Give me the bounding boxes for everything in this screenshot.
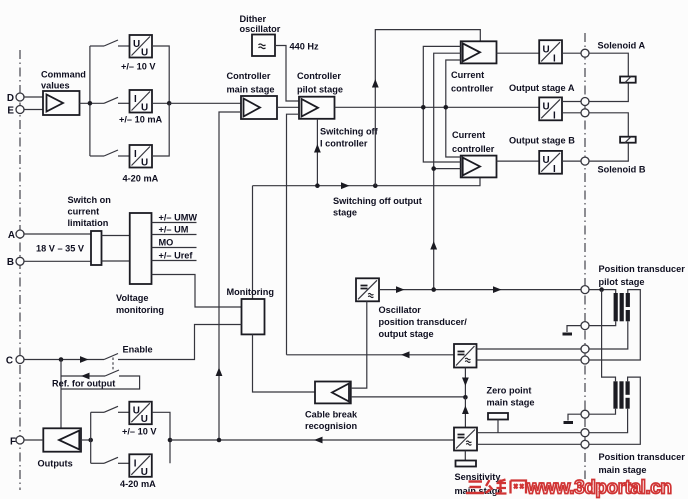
wire Uref to monitoring block: [152, 275, 242, 308]
wire demod pilot output to pilot controller: [287, 354, 455, 356]
block: demodulator pilot stage: [454, 344, 477, 368]
svg-text:MO: MO: [159, 238, 174, 248]
svg-text:4-20 mA: 4-20 mA: [120, 479, 156, 489]
svg-text:F: F: [10, 437, 16, 448]
wire oscillator bottom to cable break: [351, 301, 367, 388]
wire stub to U/U switch: [90, 45, 104, 47]
wire ref switch return loop: [61, 376, 140, 389]
wire switch to output U/U box: [118, 411, 129, 413]
svg-text:Solenoid B: Solenoid B: [598, 165, 646, 175]
converter U/U output +-10V: [129, 402, 152, 426]
svg-text:Oscillator: Oscillator: [379, 305, 422, 315]
potentiometer sensitivity: [456, 451, 477, 467]
junction dot outputs branch: [88, 438, 93, 443]
svg-text:D: D: [7, 93, 14, 104]
wire monitoring to switching line: [252, 186, 254, 299]
junction dot switching at I-controller branch: [315, 183, 320, 188]
svg-text:recognision: recognision: [305, 421, 357, 431]
wire branch into controller B input3: [434, 168, 461, 170]
wire outputs to converter branch: [81, 439, 91, 441]
svg-text:Outputs: Outputs: [38, 459, 73, 469]
svg-text:+/– UM: +/– UM: [159, 225, 189, 235]
wire oscillator output to pilot transducer: [379, 289, 581, 291]
wire ref-for-output branch vertical: [60, 360, 62, 429]
svg-text:main stage: main stage: [599, 465, 647, 475]
signal stub +/- Uref: [152, 260, 197, 262]
wire terminal B to limiter: [24, 260, 91, 262]
terminal circle pilot osc: [581, 286, 589, 294]
arrow up on A-branch: [372, 79, 379, 88]
wire stub to output U/U switch: [91, 411, 104, 413]
svg-text:4-20 mA: 4-20 mA: [123, 174, 159, 184]
svg-text:U: U: [141, 103, 148, 114]
wire switching off I controller: [316, 119, 318, 186]
svg-text:U: U: [543, 102, 550, 113]
arrow right on enable wire: [80, 356, 89, 363]
terminal circle solenoid A plus: [581, 49, 589, 57]
junction dot enable branch: [59, 357, 64, 362]
svg-text:U: U: [133, 39, 140, 50]
svg-text:Current: Current: [452, 130, 485, 140]
block: voltage monitoring: [130, 213, 152, 284]
svg-text:U: U: [141, 467, 148, 478]
wire output stage A lower out: [562, 112, 581, 114]
block: current controller A: [461, 41, 497, 63]
svg-text:Monitoring: Monitoring: [227, 287, 274, 297]
wire demod main input lower: [477, 443, 581, 445]
svg-text:Position transducer: Position transducer: [599, 264, 686, 274]
svg-text:Switch on: Switch on: [68, 195, 112, 205]
svg-text:+/– 10 V: +/– 10 V: [122, 427, 157, 437]
junction dot output join: [168, 438, 173, 443]
arrow right oscillator 2: [493, 286, 502, 293]
terminal circle E: [16, 106, 24, 114]
arrow up main demod: [462, 406, 469, 415]
svg-text:U: U: [543, 155, 550, 166]
svg-text:Controller: Controller: [297, 71, 341, 81]
terminal circle B: [16, 257, 24, 265]
junction dot join: [167, 101, 172, 106]
svg-text:main stage: main stage: [487, 398, 535, 408]
svg-text:U: U: [141, 48, 148, 59]
terminal circle solenoid B minus: [581, 157, 589, 165]
svg-text:position transducer/: position transducer/: [379, 317, 468, 327]
block: output stage B U/I: [539, 151, 562, 175]
svg-text:C: C: [6, 356, 13, 367]
wire main secondary tap: [589, 409, 628, 433]
wire output stage B out: [562, 160, 581, 162]
switch blade ref for output: [105, 370, 119, 376]
wire pilot primary return to gnd terminal: [567, 321, 616, 332]
svg-text:main stage: main stage: [227, 85, 275, 95]
svg-text:U: U: [141, 158, 148, 169]
svg-text:U: U: [141, 414, 148, 425]
wire actual-value feedback line: [170, 439, 454, 441]
svg-text:oscillator: oscillator: [240, 24, 281, 34]
wire feedback into main stage: [219, 112, 241, 440]
left terminal rail (dash-dot): [19, 50, 21, 490]
branch vertical output converters: [90, 412, 92, 463]
block: cable break recognision: [315, 382, 351, 404]
svg-text:output stage: output stage: [379, 329, 434, 339]
watermark 网 glyph: [511, 481, 527, 494]
junction dot oscillator branch B: [431, 166, 436, 171]
wire pilot node to controller A input3 and B input1: [446, 60, 461, 157]
signal stub MO: [152, 247, 197, 249]
svg-text:I: I: [134, 149, 137, 160]
svg-text:Switching off output: Switching off output: [333, 196, 422, 206]
wire ref for output line: [61, 375, 105, 377]
switch blade 4-20mA input: [104, 150, 118, 156]
svg-text:values: values: [41, 81, 70, 91]
switch gang link (dashed): [112, 358, 114, 372]
arrow up on feedback vertical: [216, 368, 223, 377]
arrow right on switching line: [341, 182, 350, 189]
wire pilot secondary tap: [589, 321, 628, 349]
wire enable to monitoring: [118, 325, 242, 360]
switch blade output U/U: [104, 406, 118, 412]
svg-text:Cable break: Cable break: [305, 410, 358, 420]
junction dot pilot line x423: [421, 105, 426, 110]
transformer pilot secondary bottom bar: [626, 310, 630, 321]
block: controller pilot stage: [299, 97, 335, 119]
converter I/U 4-20mA: [130, 145, 153, 169]
terminal circle main sec top: [581, 440, 589, 448]
junction dot branch: [88, 101, 93, 106]
ground pilot: [563, 333, 573, 336]
svg-text:Zero point: Zero point: [487, 386, 532, 396]
wire stub to 4-20mA switch: [90, 155, 104, 157]
wire solenoid A loop: [589, 53, 628, 101]
block: command values amplifier: [43, 91, 80, 115]
terminal circle main gnd: [581, 410, 589, 418]
wire switch to I/U box: [118, 102, 130, 104]
svg-text:pilot stage: pilot stage: [599, 277, 645, 287]
junction dot oscillator sync: [431, 287, 436, 292]
wire pilot secondary top loop: [589, 290, 640, 360]
wire switch to U/U box: [118, 45, 130, 47]
solenoid B coil symbol: [620, 137, 636, 143]
wire switch to 4-20mA box: [118, 155, 130, 157]
svg-text:stage: stage: [333, 208, 357, 218]
junction dot switching at A-branch: [373, 183, 378, 188]
block: current controller B: [461, 156, 497, 178]
svg-text:Voltage: Voltage: [116, 293, 149, 303]
wire solenoid B loop: [589, 113, 628, 161]
wire terminal C to enable switch: [24, 359, 104, 361]
wire output stage A upper out: [562, 101, 581, 103]
switch blade output 4-20: [104, 457, 118, 463]
converter U/U +-10V: [130, 35, 153, 59]
svg-text:U: U: [133, 406, 140, 417]
svg-text:+/– UMW: +/– UMW: [159, 213, 198, 223]
svg-text:I controller: I controller: [320, 139, 368, 149]
wire pilot primary feed: [589, 290, 616, 293]
terminal circle solenoid B plus: [581, 109, 589, 117]
arrow left demod pilot output: [401, 351, 410, 358]
transformer pilot secondary top bar: [626, 293, 630, 307]
wire pilot output to output stage A: [335, 106, 540, 108]
svg-text:I: I: [553, 111, 556, 122]
watermark 维 glyph: [486, 480, 507, 494]
solenoid A coil symbol: [620, 77, 636, 83]
terminal circle A: [16, 230, 24, 238]
wire oscillator down to main transducer: [602, 290, 616, 382]
arrow right oscillator 1: [396, 286, 405, 293]
terminal circle pilot sec top: [581, 356, 589, 364]
svg-text:I: I: [553, 164, 556, 175]
svg-text:A: A: [8, 230, 15, 241]
wire pilot feedback from demodulator: [287, 114, 300, 355]
svg-text:www.3dportal.cn: www.3dportal.cn: [526, 478, 672, 499]
wire demod pilot down to node: [464, 368, 466, 398]
wire command signal to controller main stage: [169, 102, 241, 104]
wire 4-20mA to join vertical: [152, 103, 169, 156]
terminal circle pilot sec tap: [581, 345, 589, 353]
junction dot feedback to main stage: [217, 438, 222, 443]
junction dot transducer signal node: [463, 395, 468, 400]
svg-text:+/– Uref: +/– Uref: [159, 251, 194, 261]
wire oscillator sync to controller A input2 and B input3: [434, 53, 461, 289]
svg-text:I: I: [134, 94, 137, 105]
transformer main secondary bottom bar: [626, 398, 630, 409]
svg-text:U: U: [543, 45, 550, 56]
wire main secondary top loop: [589, 377, 640, 444]
wire terminal A to limiter: [24, 233, 91, 235]
svg-text:current: current: [68, 207, 100, 217]
switch blade enable: [104, 354, 118, 360]
svg-text:pilot stage: pilot stage: [297, 85, 343, 95]
wire command output to branch node: [80, 102, 105, 104]
wire controller A output to U/I stage: [497, 52, 540, 54]
terminal circle D: [16, 93, 24, 101]
block: controller main stage: [241, 96, 277, 119]
wire switching off to current controller A top: [375, 30, 480, 186]
wire U/I to solenoid A terminal: [562, 52, 581, 54]
svg-text:Output stage B: Output stage B: [509, 136, 575, 146]
wire limiter to voltage monitoring upper: [102, 235, 130, 237]
block: demodulator main stage: [454, 428, 477, 451]
wire controller B output to U/I stage: [497, 160, 540, 162]
svg-text:controller: controller: [451, 84, 494, 94]
output stage U/I box solenoid A: [539, 40, 562, 64]
block: dither oscillator: [252, 35, 275, 57]
svg-text:limitation: limitation: [68, 218, 109, 228]
branch vertical for input converters: [89, 46, 91, 156]
wire stub to output 4-20 switch: [91, 462, 104, 464]
svg-text:Controller: Controller: [227, 71, 271, 81]
svg-text:I: I: [134, 458, 137, 469]
switch blade I/U input: [104, 97, 118, 103]
wire switch to output I/U box: [118, 462, 129, 464]
svg-text:Enable: Enable: [123, 345, 153, 355]
wire outputs to terminal F: [24, 439, 43, 441]
signal stub +/- UM: [152, 234, 197, 236]
svg-text:18 V – 35 V: 18 V – 35 V: [36, 244, 85, 254]
wire pilot node to controller A input1 and B input2: [423, 46, 460, 162]
wire dither to pilot stage: [275, 46, 299, 102]
wire switching off output stage: [253, 177, 481, 185]
wire demod pilot input upper: [477, 348, 582, 350]
arrow down demod pilot: [462, 378, 469, 387]
svg-text:+/– 10 V: +/– 10 V: [121, 62, 156, 72]
svg-text:monitoring: monitoring: [116, 305, 164, 315]
transformer pilot primary bar1: [614, 293, 618, 321]
svg-text:Dither: Dither: [240, 14, 267, 24]
converter I/U +-10mA: [130, 90, 153, 114]
transformer main secondary top bar: [626, 381, 630, 395]
svg-text:Switching off: Switching off: [320, 127, 379, 137]
wire main demod up to node: [464, 397, 466, 427]
wire I/U to join node: [152, 102, 169, 104]
watermark 三 glyph: [466, 482, 484, 494]
junction dot pilot line x446: [444, 105, 449, 110]
svg-text:E: E: [7, 106, 14, 117]
svg-text:+/– 10 mA: +/– 10 mA: [119, 115, 163, 125]
wire main primary return to gnd terminal: [568, 409, 616, 421]
right terminal rail (dash-dot): [584, 33, 586, 479]
arrow up into pilot stage bottom: [314, 144, 321, 153]
wire demod pilot input lower: [477, 359, 582, 361]
terminal circle pilot gnd: [581, 322, 589, 330]
wire main stage to pilot stage: [277, 106, 299, 108]
svg-text:Output stage A: Output stage A: [509, 83, 575, 93]
transformer main primary bar2: [619, 381, 623, 408]
terminal circle solenoid A minus: [581, 98, 589, 106]
terminal circle F: [16, 436, 24, 444]
svg-text:Position transducer: Position transducer: [599, 452, 686, 462]
transformer main primary bar1: [613, 381, 617, 408]
wire output U/U to join vertical: [152, 412, 170, 463]
junction dot pilot osc branch: [599, 287, 604, 292]
block: output stage A U/I: [539, 97, 562, 121]
terminal circle C: [16, 356, 24, 364]
svg-text:Ref. for output: Ref. for output: [52, 379, 115, 389]
block: switch-on current limitation: [91, 231, 102, 265]
wire U/U to join vertical: [152, 46, 169, 103]
svg-text:I: I: [553, 54, 556, 65]
svg-text:Solenoid A: Solenoid A: [598, 41, 646, 51]
svg-text:Current: Current: [451, 70, 484, 80]
wire cable break input from transducer node: [351, 396, 466, 398]
svg-text:B: B: [7, 257, 14, 268]
block: outputs amplifier: [43, 428, 81, 451]
svg-text:controller: controller: [452, 144, 495, 154]
svg-text:440 Hz: 440 Hz: [290, 42, 320, 52]
ground main: [564, 421, 574, 424]
arrow left on ref line: [81, 373, 90, 380]
arrow up on oscillator sync vertical: [430, 241, 437, 250]
converter I/U output 4-20mA: [129, 454, 152, 478]
wire monitoring to cable break: [253, 334, 316, 392]
wire E to command values: [24, 109, 43, 111]
block: monitoring: [242, 299, 265, 334]
arrow left on feedback line: [314, 437, 323, 444]
svg-text:Command: Command: [41, 70, 86, 80]
switch blade U/U input: [104, 40, 118, 46]
potentiometer zero point: [488, 413, 508, 433]
signal stub +/- UMW: [152, 222, 197, 224]
transformer pilot primary bar2: [620, 293, 624, 321]
wire limiter to voltage monitoring lower: [102, 260, 130, 262]
wire D to command values: [24, 96, 43, 98]
wire demod main input upper: [477, 432, 581, 434]
terminal circle main sec tap: [581, 429, 589, 437]
block: oscillator position transducer: [356, 278, 379, 301]
